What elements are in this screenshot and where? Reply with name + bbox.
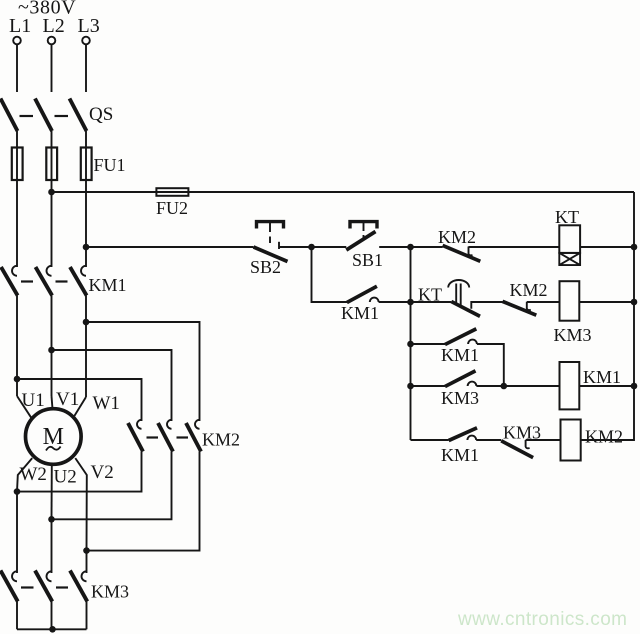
- svg-text:V1: V1: [56, 389, 79, 410]
- wire KM3 pole2 to star bar: [51, 602, 53, 630]
- contactor KM1 pole 3 hook: [81, 266, 86, 276]
- QS linkage dash 2: [55, 115, 69, 117]
- wire motor lead W1: [74, 397, 86, 416]
- terminal L1: [13, 37, 21, 45]
- svg-text:U2: U2: [54, 467, 77, 488]
- svg-text:V2: V2: [91, 462, 114, 483]
- wire L2 QS to KM1: [51, 131, 53, 267]
- svg-text:SB2: SB2: [250, 257, 281, 277]
- node B: [407, 244, 414, 251]
- contactor KM2 pole 2 hook: [167, 420, 172, 429]
- wire L3 tap to SB2: [86, 246, 254, 248]
- wire L2 drop to QS: [51, 45, 53, 93]
- svg-text:U1: U1: [22, 390, 45, 411]
- contactor KM3 pole 3 blade: [70, 571, 87, 602]
- wire KM2 NC to KM3 coil: [527, 301, 560, 303]
- KM1 linkage dash 2: [56, 280, 68, 282]
- node U2 delta join: [48, 516, 55, 523]
- contact KM2 NC row1 blade: [443, 245, 481, 261]
- wire V2 to KM2 pole3 bottom: [87, 452, 200, 551]
- svg-text:KM2: KM2: [585, 427, 623, 447]
- wire node B to KT contact: [411, 301, 452, 303]
- svg-text:L1: L1: [9, 15, 31, 37]
- contactor KM1 pole 2 hook: [47, 266, 52, 276]
- svg-text:KM3: KM3: [441, 388, 479, 408]
- svg-text:KM2: KM2: [510, 280, 548, 300]
- wire motor lead U2: [51, 464, 53, 519]
- contact KM1 NO self-hold blade: [347, 286, 377, 302]
- wire node B to KM2 NC: [411, 246, 443, 248]
- fuse FU1 element 3: [81, 148, 92, 181]
- contactor KM2 pole 2 blade: [158, 423, 173, 452]
- timer contact KT delayed blade: [451, 302, 480, 317]
- wire KT coil to right rail: [580, 246, 634, 248]
- pushbutton SB1 cap: [350, 222, 377, 229]
- terminal L3: [82, 37, 90, 45]
- wire motor lead U1: [17, 396, 31, 418]
- wire SB2 to node A: [279, 246, 312, 248]
- pushbutton SB1 stem: [363, 223, 365, 239]
- contactor KM2 pole 3 blade: [186, 423, 201, 452]
- motor M circle: [26, 409, 82, 465]
- contactor KM3 pole 2 hook: [47, 571, 52, 581]
- terminal L2: [48, 37, 56, 45]
- KM3 linkage dash 2: [56, 586, 68, 588]
- contact KM2 NC row2 blade: [503, 301, 537, 315]
- node L3 control tap: [83, 244, 90, 251]
- svg-text:KM1: KM1: [341, 303, 379, 323]
- svg-text:KM2: KM2: [438, 227, 476, 247]
- wire L3 tap to KM2 pole3: [86, 322, 200, 421]
- timer contact KT stem lines: [456, 284, 461, 306]
- node B row2: [407, 299, 414, 306]
- node L1 delta tap: [14, 376, 21, 383]
- node rail row2: [631, 299, 638, 306]
- contactor coil KM1: [560, 362, 580, 409]
- timer contact KT fixed step: [471, 302, 502, 309]
- wire node B vertical: [410, 247, 412, 440]
- svg-text:KM2: KM2: [202, 430, 240, 450]
- wire KM3 pole3 to star bar: [86, 602, 88, 630]
- wire KM3 pole1 to star bar: [16, 602, 18, 630]
- node L2 control tap: [48, 189, 55, 196]
- svg-text:KM1: KM1: [583, 367, 621, 387]
- pushbutton SB1 blade: [346, 232, 375, 251]
- svg-text:KM1: KM1: [89, 275, 127, 295]
- wire W2 to KM3 pole1: [16, 492, 18, 573]
- QS linkage dash 1: [20, 115, 34, 117]
- svg-text:KT: KT: [555, 207, 579, 227]
- svg-text:W2: W2: [20, 464, 47, 485]
- timer KT delay box: [559, 253, 580, 265]
- svg-text:KT: KT: [418, 285, 442, 305]
- KM3 linkage dash 1: [21, 586, 34, 588]
- node V2 delta join: [83, 547, 90, 554]
- svg-text:KM3: KM3: [91, 582, 129, 602]
- svg-text:QS: QS: [89, 104, 113, 125]
- node A: [308, 244, 315, 251]
- wire L1 below KM1: [16, 296, 18, 397]
- wire KM1 coil to right rail: [579, 385, 634, 387]
- node L2 delta tap: [48, 347, 55, 354]
- svg-text:KM1: KM1: [441, 445, 479, 465]
- wire L1 tap to KM2 pole1: [17, 379, 142, 421]
- svg-text:L2: L2: [43, 15, 65, 37]
- contactor KM3 pole 1 blade: [1, 571, 18, 602]
- switch QS pole 2 blade: [35, 99, 52, 132]
- contact KM2 NC row2 tick: [527, 302, 531, 310]
- wire node B corner row4: [411, 439, 449, 441]
- KM2 linkage dash 1: [147, 436, 159, 438]
- contact KM1 NO row3 blade: [445, 329, 476, 345]
- KM2 linkage dash 2: [177, 436, 189, 438]
- wire motor lead V2: [75, 458, 87, 550]
- wire motor lead W2: [17, 458, 32, 492]
- wire L2 below KM1: [51, 296, 53, 397]
- pushbutton SB2 fixed contact tick: [278, 242, 280, 249]
- svg-text:www.cntronics.com: www.cntronics.com: [457, 609, 627, 630]
- contactor KM2 pole 1 blade: [128, 423, 143, 452]
- contact KM2 NC row1 tick: [469, 247, 473, 256]
- wire node A drop: [312, 247, 348, 302]
- contactor coil KM2: [561, 420, 581, 461]
- wire KM1 self-hold to node B: [379, 301, 411, 303]
- contactor KM1 pole 2 blade: [36, 267, 53, 296]
- contact KM1 NO row4 blade: [449, 428, 477, 441]
- contactor KM1 pole 1 hook: [12, 266, 17, 276]
- wire W2 to KM2 pole1 bottom: [17, 452, 142, 492]
- wire KM1 row3 corner: [477, 344, 504, 386]
- pushbutton SB2 cap: [257, 222, 284, 229]
- contactor coil KM3: [560, 281, 580, 321]
- wire U2 to KM2 pole2 bottom: [52, 452, 172, 520]
- motor tilde: [46, 447, 61, 451]
- wire node B to KM3 contact row3: [411, 385, 446, 387]
- contactor KM3 pole 2 blade: [35, 571, 52, 602]
- svg-text:L3: L3: [78, 15, 100, 37]
- contact KM3 row3 arc: [468, 382, 477, 386]
- svg-text:FU1: FU1: [94, 155, 126, 175]
- wire star point bar: [17, 628, 87, 630]
- contactor KM2 pole 3 hook: [195, 420, 200, 429]
- wire KM2 NC to KT coil: [469, 246, 560, 248]
- timer contact KT umbrella arc: [448, 280, 469, 287]
- timer coil KT: [559, 225, 580, 253]
- node W2 delta join: [14, 488, 21, 495]
- fuse FU2: [156, 188, 188, 196]
- contact KM3 row3 blade: [445, 371, 476, 387]
- node B row3a: [407, 341, 414, 348]
- fuse FU1 element 2: [46, 148, 57, 181]
- wire L3 QS to KM1: [85, 131, 87, 267]
- node rail row1: [631, 244, 638, 251]
- contactor KM1 pole 1 blade: [1, 267, 18, 296]
- wire motor lead V1: [52, 396, 53, 409]
- wire V2 to KM3 pole3: [86, 551, 88, 573]
- wire KM2 coil to right rail corner: [581, 192, 634, 440]
- wire L1 drop to QS: [16, 45, 18, 93]
- wire node B to KM1 NO row3: [411, 343, 446, 345]
- fuse FU1 element 1: [12, 148, 23, 181]
- contactor KM3 pole 3 hook: [82, 571, 87, 581]
- wire L3 below KM1: [85, 296, 87, 398]
- svg-text:W1: W1: [93, 393, 120, 414]
- contactor KM2 pole 1 hook: [137, 420, 142, 429]
- wire KM3 coil to right rail: [579, 301, 634, 303]
- contactor KM1 pole 3 blade: [70, 267, 87, 296]
- contact KM3 NC row4 tick: [526, 440, 530, 448]
- node rail row3: [631, 383, 638, 390]
- svg-text:KM1: KM1: [441, 345, 479, 365]
- node B row3b: [407, 383, 414, 390]
- pushbutton SB2 stem: [269, 223, 271, 243]
- node L3 delta tap: [83, 319, 90, 326]
- svg-text:M: M: [43, 424, 64, 450]
- wire KM3 NC to KM2 coil: [526, 439, 561, 441]
- node row3 join: [501, 383, 508, 390]
- pushbutton SB2 blade: [254, 247, 288, 262]
- svg-text:FU2: FU2: [156, 198, 188, 218]
- wire control bus top: [52, 191, 635, 193]
- contact KM3 NC row4 blade: [501, 441, 533, 458]
- switch QS pole 1 blade: [1, 99, 18, 132]
- KM1 linkage dash 1: [21, 280, 33, 282]
- switch QS pole 3 blade: [70, 99, 87, 132]
- wire node A to SB1: [312, 246, 347, 248]
- wire L2 tap to KM2 pole2: [52, 350, 172, 421]
- wire SB1 to node B: [379, 246, 410, 248]
- contactor KM3 pole 1 hook: [12, 571, 17, 581]
- wire KM1 row4 to KM3 NC: [476, 439, 501, 441]
- node star point: [49, 626, 56, 633]
- contact KM1 NO row3 arc: [468, 340, 477, 344]
- svg-text:KM3: KM3: [554, 325, 592, 345]
- wire L3 drop to QS: [85, 45, 87, 93]
- wire L1 QS to KM1: [16, 131, 18, 267]
- svg-text:SB1: SB1: [352, 250, 383, 270]
- wire U2 to KM3 pole2: [51, 519, 53, 573]
- contact KM1 NO self-hold arc: [370, 298, 379, 302]
- wire to KM1 coil: [476, 385, 559, 387]
- contact KM1 NO row4 arc: [467, 436, 476, 440]
